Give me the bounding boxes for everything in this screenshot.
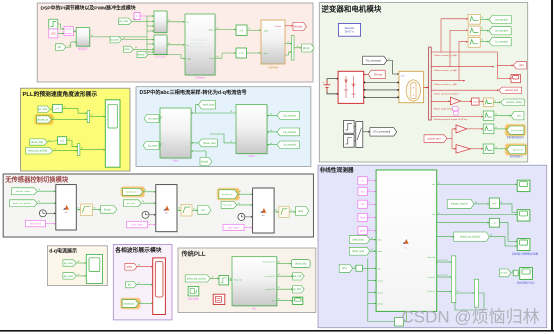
svg-text:非线性观测器: 非线性观测器 [320,166,354,174]
svg-text:06: 06 [457,291,459,293]
svg-text:06: 06 [500,202,502,204]
svg-text:[actual_w]: [actual_w] [126,191,136,194]
svg-text:wm: wm [272,301,275,303]
svg-text:<Stator current is_c (A)>: <Stator current is_c (A)> [434,83,459,86]
svg-text:[iq_now]: [iq_now] [64,275,73,278]
svg-text:06: 06 [270,114,272,116]
svg-text:<Electromagnetic torque Te (N*: <Electromagnetic torque Te (N*m)> [434,118,469,121]
svg-text:06: 06 [211,277,213,279]
svg-text:theta_hat_PLL: theta_hat_PLL [263,261,275,264]
svg-text:[theta]: [theta] [138,53,145,56]
svg-text:06: 06 [239,191,241,193]
svg-text:06: 06 [270,143,272,145]
svg-text:z-1: z-1 [60,139,64,143]
svg-text:06: 06 [94,208,96,210]
svg-text:无传感器控制切换模块: 无传感器控制切换模块 [4,174,69,183]
svg-text:06: 06 [371,238,373,240]
svg-text:ib_hat_of: ib_hat_of [428,290,436,293]
svg-text:[actual_w]: [actual_w] [222,193,232,196]
svg-text:06: 06 [278,299,280,301]
svg-text:06: 06 [438,275,440,277]
svg-text:SVPWM: SVPWM [268,66,278,70]
svg-text:06: 06 [133,19,135,21]
svg-text:[theta_hat_byObs]: [theta_hat_byObs] [13,202,31,205]
svg-text:06: 06 [53,117,55,119]
svg-text:06: 06 [161,117,163,119]
svg-text:[theta]: [theta] [201,160,208,163]
svg-text:[actual_wm]: [actual_wm] [511,129,523,132]
svg-text:06: 06 [278,287,280,289]
svg-text:[actual_w]: [actual_w] [37,118,48,121]
svg-text:e1: e1 [368,228,370,230]
svg-text:Antipark: Antipark [195,75,205,79]
svg-text:[actual_n]: [actual_n] [513,148,523,151]
svg-text:06: 06 [475,202,477,204]
svg-text:06: 06 [230,141,232,143]
svg-text:06: 06 [54,149,56,151]
svg-text:e1: e1 [368,202,370,204]
svg-text:ia_hat: ia_hat [378,280,383,283]
svg-text:e1: e1 [368,215,370,217]
svg-text:[actual_wm]: [actual_wm] [428,137,441,140]
svg-text:06: 06 [135,47,137,49]
svg-text:beta: beta [264,52,268,55]
svg-text:[abc]: [abc] [127,266,133,269]
svg-text:[theta_hat_byObs]: [theta_hat_byObs] [28,150,47,153]
svg-text:06: 06 [388,59,390,61]
svg-text:obs: obs [432,214,435,216]
svg-text:06: 06 [270,130,272,132]
svg-text:06: 06 [217,28,219,30]
svg-text:w_hat_PLL: w_hat_PLL [266,288,275,291]
svg-text:[duty]: [duty] [303,46,310,50]
svg-text:06: 06 [275,210,277,212]
svg-text:06: 06 [38,189,40,191]
svg-text:z-1: z-1 [239,51,243,55]
svg-text:(theta_hat): (theta_hat) [295,262,307,265]
svg-text:[wr_hat]: [wr_hat] [127,202,135,205]
svg-text:06: 06 [278,262,280,264]
svg-text:06: 06 [193,209,195,211]
svg-text:<Stator current is_a (A)>: <Stator current is_a (A)> [434,54,459,57]
svg-text:逆变器和电机模块: 逆变器和电机模块 [321,3,381,13]
svg-text:[electric_theta]: [electric_theta] [16,190,31,193]
svg-text:w_hat_of: w_hat_of [440,274,448,277]
svg-text:z-1: z-1 [55,106,59,110]
svg-text:06: 06 [81,148,83,150]
svg-text:Tpwm: Tpwm [359,217,365,219]
svg-text:[w_hat]: [w_hat] [293,288,301,291]
svg-text:06: 06 [238,203,240,205]
svg-text:06: 06 [142,201,144,203]
svg-text:[w]: [w] [201,209,204,212]
svg-text:[actual_is]: [actual_is] [124,302,135,305]
svg-text:[id_now]: [id_now] [148,117,158,120]
svg-text:[ib_sample]: [ib_sample] [284,131,297,134]
svg-text:06: 06 [481,40,483,42]
svg-text:ws_hat_PLL: ws_hat_PLL [265,275,275,278]
svg-text:06: 06 [297,46,299,48]
svg-text:vq: vq [187,45,189,47]
svg-text:<Stator current is_b (A)>: <Stator current is_b (A)> [434,69,459,72]
svg-text:[Tm_command]: [Tm_command] [373,131,390,134]
svg-text:z-1: z-1 [239,28,243,32]
svg-text:5e-07 s.: 5e-07 s. [345,30,355,34]
svg-text:Pulse: Pulse [276,26,282,28]
svg-text:[ic_sample]: [ic_sample] [496,41,508,44]
svg-text:[actual_wm]: [actual_wm] [505,89,518,92]
svg-text:06: 06 [91,115,93,117]
svg-text:传统PLL: 传统PLL [181,250,206,258]
svg-text:06: 06 [178,208,180,210]
svg-text:06: 06 [91,35,93,37]
svg-text:06: 06 [138,265,140,267]
svg-text:06: 06 [494,100,496,102]
svg-text:PLL: PLL [252,307,258,311]
svg-text:fcn: fcn [165,213,168,215]
svg-text:06: 06 [217,56,219,58]
svg-text:06: 06 [354,266,356,268]
svg-text:[iq_now]: [iq_now] [148,144,158,147]
svg-text:06: 06 [438,213,440,215]
svg-text:06: 06 [495,147,497,149]
svg-text:DSP中的PI调节模块以及PWM脉冲生成模块: DSP中的PI调节模块以及PWM脉冲生成模块 [41,4,136,11]
svg-text:[iq_now]: [iq_now] [119,20,128,23]
svg-text:06: 06 [290,210,292,212]
svg-text:Discrete: Discrete [345,26,355,30]
svg-text:06: 06 [168,43,170,45]
svg-text:time_trans: time_trans [228,226,240,229]
svg-text:Clark: Clark [248,154,255,158]
svg-text:vd: vd [187,22,189,24]
svg-text:06: 06 [168,20,170,22]
svg-text:06: 06 [230,111,232,113]
svg-text:06: 06 [64,107,66,109]
svg-text:06: 06 [481,17,483,19]
svg-text:06: 06 [144,190,146,192]
svg-text:ia_hat_of: ia_hat_of [428,276,436,279]
svg-text:06: 06 [161,144,163,146]
svg-text:[wrtb_now]: [wrtb_now] [203,104,215,107]
svg-text:06: 06 [512,271,514,273]
svg-text:06: 06 [139,302,141,304]
svg-text:06: 06 [230,278,232,280]
svg-text:vq regulator: vq regulator [155,56,167,59]
svg-text:[Pulse]: [Pulse] [294,24,302,28]
svg-text:06: 06 [68,139,70,141]
svg-text:06: 06 [51,107,53,109]
svg-text:[te]: [te] [517,115,521,118]
svg-text:[ws_hat]: [ws_hat] [293,275,302,278]
svg-text:Tm_command: Tm_command [366,59,382,62]
svg-text:e1: e1 [368,189,370,191]
svg-text:[ia_sample]: [ia_sample] [496,18,509,21]
svg-text:06: 06 [69,45,71,47]
svg-text:d-q电流展示: d-q电流展示 [49,248,77,255]
svg-text:06: 06 [438,183,440,185]
svg-text:Park: Park [173,159,179,163]
svg-text:obs: obs [432,184,435,186]
svg-text:06: 06 [495,127,497,129]
svg-text:06: 06 [371,249,373,251]
svg-text:[wr_hat]: [wr_hat] [224,204,232,207]
svg-text:wm: wm [378,268,381,270]
svg-text:ibeta: ibeta [378,250,382,253]
svg-text:[w]: [w] [57,45,61,49]
svg-text:ialfa: ialfa [378,240,381,242]
svg-text:200: 200 [51,31,56,35]
svg-text:[wm]: [wm] [342,268,347,270]
svg-text:fcn: fcn [65,212,68,214]
svg-text:[ia_sample]: [ia_sample] [284,114,297,117]
svg-text:06: 06 [77,208,79,210]
svg-text:[ic_sample]: [ic_sample] [284,144,296,147]
svg-text:[wm]: [wm] [298,210,303,213]
svg-text:速度给定: 速度给定 [78,46,88,50]
svg-text:w_hat_of: w_hat_of [440,259,448,262]
svg-text:time_trans: time_trans [132,223,144,226]
svg-text:06: 06 [49,140,51,142]
svg-text:<Rotor speed wm (rad/s)>: <Rotor speed wm (rad/s)> [434,92,460,95]
svg-text:[ww]: [ww] [125,48,130,51]
svg-text:PLL的预测速度角度波形展示: PLL的预测速度角度波形展示 [23,90,98,98]
svg-text:[ibeta_now]: [ibeta_now] [352,250,364,253]
svg-text:+: + [322,81,324,85]
svg-text:[theta_now]: [theta_now] [203,142,216,145]
svg-text:06: 06 [438,260,440,262]
svg-text:06: 06 [495,114,497,116]
svg-text:gama: gama [360,230,366,232]
svg-text:各相波形展示模块: 各相波形展示模块 [114,246,162,254]
svg-text:06: 06 [278,274,280,276]
svg-text:ib_hat: ib_hat [378,291,383,294]
svg-text:06: 06 [490,235,492,237]
svg-text:[ib_sample]: [ib_sample] [496,30,509,33]
svg-text:theta_hat: theta_hat [428,256,436,259]
svg-text:06: 06 [138,283,140,285]
svg-text:fcn: fcn [262,215,265,217]
svg-text:[idc]: [idc] [519,64,524,67]
svg-text:06: 06 [248,28,250,30]
svg-text:[theta_hat_byObs]: [theta_hat_byObs] [187,277,206,280]
svg-text:06: 06 [123,38,125,40]
svg-text:Tm: Tm [401,76,404,78]
svg-text:[theta]: [theta] [104,208,111,211]
svg-text:[id_now]: [id_now] [64,262,73,265]
svg-text:[Pulse]: [Pulse] [374,72,382,76]
svg-text:[theta_hat]: [theta_hat] [31,141,43,144]
svg-text:angle: angle [187,59,191,61]
svg-text:[ialfa_now]: [ialfa_now] [353,239,364,241]
svg-text:[electric_freqen]: [electric_freqen] [451,203,468,206]
svg-text:[id_now]: [id_now] [110,39,119,42]
svg-text:[electric_theta]: [electric_theta] [507,101,522,104]
svg-text:[mode]: [mode] [500,273,507,275]
svg-text:06: 06 [77,261,79,263]
svg-text:wf_hat: wf_hat [378,303,384,306]
svg-text:06: 06 [481,28,483,30]
svg-text:[theta_hat_byObs]: [theta_hat_byObs] [460,236,480,239]
svg-text:DSP中的abc三相电流采样-转化为d-q电流信号: DSP中的abc三相电流采样-转化为d-q电流信号 [140,88,247,96]
svg-text:CSDN @烦恼归林: CSDN @烦恼归林 [402,308,540,327]
svg-text:[is]: [is] [128,284,132,287]
svg-text:06: 06 [38,201,40,203]
svg-text:06: 06 [287,42,289,44]
svg-text:alpha: alpha [264,31,268,33]
svg-text:06: 06 [77,274,79,276]
svg-text:[wr_hat]: [wr_hat] [38,108,47,111]
svg-text:e1: e1 [368,179,370,181]
svg-text:theta_hat: theta_hat [234,279,242,282]
svg-text:time_trans: time_trans [30,222,42,225]
